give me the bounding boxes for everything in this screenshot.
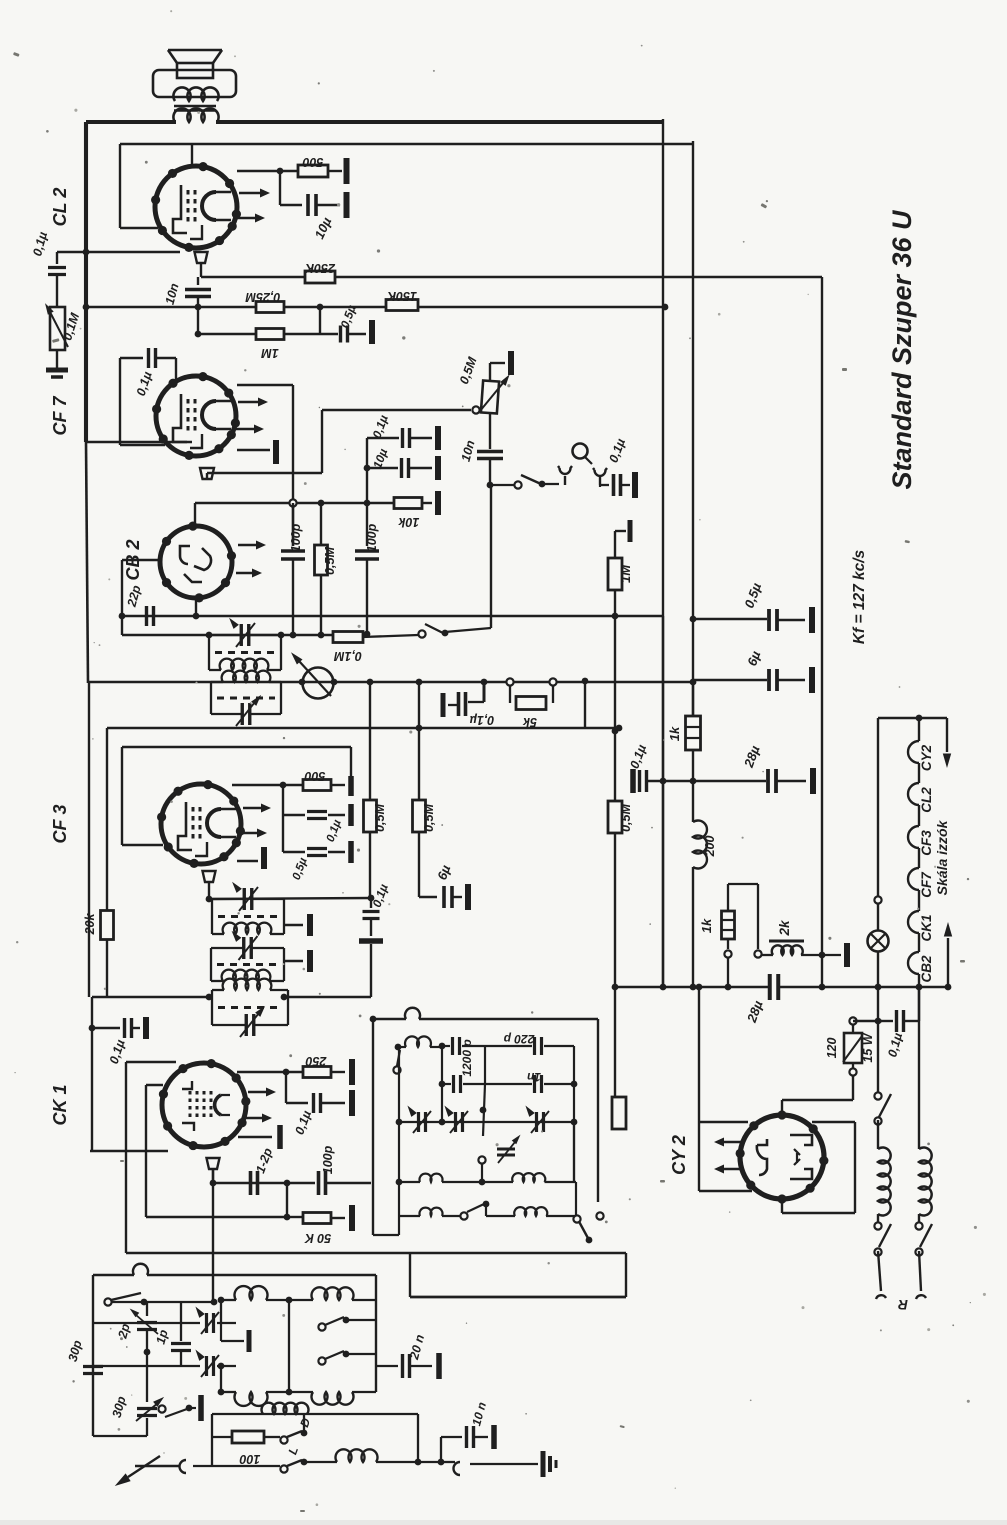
svg-text:1p: 1p [153, 1328, 170, 1346]
svg-text:0,1µ: 0,1µ [325, 818, 344, 844]
svg-text:120: 120 [825, 1038, 839, 1059]
svg-text:2p: 2p [115, 1322, 133, 1341]
svg-text:10 n: 10 n [469, 1401, 489, 1428]
svg-text:50 K: 50 K [304, 1231, 331, 1245]
svg-text:1k: 1k [667, 726, 682, 741]
svg-text:1200 p: 1200 p [460, 1039, 474, 1076]
svg-text:28µ: 28µ [741, 743, 763, 770]
svg-text:100: 100 [240, 1452, 261, 1466]
svg-text:0,5M: 0,5M [323, 547, 337, 575]
svg-text:200: 200 [703, 836, 717, 858]
svg-text:0,1µ: 0,1µ [885, 1031, 905, 1058]
svg-text:R: R [898, 1297, 908, 1312]
svg-text:CK1: CK1 [919, 914, 934, 941]
svg-text:0,1µ: 0,1µ [627, 743, 649, 771]
svg-text:30p: 30p [66, 1338, 85, 1363]
svg-text:0,1µ: 0,1µ [30, 230, 50, 257]
svg-text:20k: 20k [83, 913, 97, 936]
svg-text:0,25M: 0,25M [245, 290, 280, 304]
svg-text:1-2p: 1-2p [253, 1146, 275, 1175]
svg-text:1M: 1M [618, 564, 633, 583]
svg-text:10n: 10n [459, 438, 478, 463]
svg-text:0,1µ: 0,1µ [107, 1038, 128, 1066]
svg-text:CY2: CY2 [919, 744, 934, 771]
svg-text:0,5M: 0,5M [619, 804, 633, 832]
svg-text:1M: 1M [261, 346, 279, 360]
svg-text:100p: 100p [365, 523, 379, 552]
svg-text:CL 2: CL 2 [50, 188, 70, 227]
svg-text:10µ: 10µ [311, 215, 334, 242]
svg-text:6µ: 6µ [744, 649, 763, 668]
svg-text:CF 3: CF 3 [50, 804, 70, 843]
svg-text:0,1M: 0,1M [60, 311, 82, 342]
svg-text:CY 2: CY 2 [669, 1135, 689, 1175]
svg-text:20 n: 20 n [407, 1333, 427, 1362]
svg-text:250K: 250K [304, 261, 336, 275]
svg-text:CF3: CF3 [919, 830, 934, 856]
svg-text:2k: 2k [777, 919, 792, 937]
svg-text:150K: 150K [386, 289, 417, 303]
svg-text:0,1M: 0,1M [334, 649, 362, 663]
svg-text:0,5M: 0,5M [422, 804, 436, 832]
svg-text:10n: 10n [163, 281, 182, 306]
svg-text:0,1µ: 0,1µ [292, 1109, 314, 1137]
svg-text:0,1µ: 0,1µ [370, 413, 391, 440]
svg-text:100p: 100p [289, 523, 303, 552]
svg-text:0,5µ: 0,5µ [291, 856, 310, 882]
svg-text:CF7: CF7 [919, 871, 934, 898]
svg-text:15 W: 15 W [861, 1032, 875, 1062]
svg-text:100p: 100p [321, 1145, 335, 1174]
svg-text:Standard Szuper 36 U: Standard Szuper 36 U [887, 209, 917, 490]
svg-text:6µ: 6µ [434, 863, 453, 882]
svg-text:Skála izzók: Skála izzók [934, 819, 950, 895]
svg-text:CB2: CB2 [919, 955, 934, 982]
svg-text:1k: 1k [699, 918, 714, 933]
svg-text:1n: 1n [527, 1070, 541, 1084]
svg-text:500: 500 [305, 769, 326, 783]
svg-text:D: D [297, 1416, 313, 1429]
svg-text:10k: 10k [398, 515, 420, 529]
svg-text:CL2: CL2 [919, 787, 934, 813]
svg-text:220 p: 220 p [504, 1032, 536, 1046]
svg-text:0,5M: 0,5M [457, 355, 480, 386]
svg-text:0,5µ: 0,5µ [741, 580, 764, 610]
svg-text:250: 250 [306, 1054, 328, 1068]
svg-text:28µ: 28µ [744, 998, 766, 1025]
svg-text:CF 7: CF 7 [50, 396, 70, 436]
svg-text:CK 1: CK 1 [50, 1084, 70, 1125]
svg-text:0,1µ: 0,1µ [606, 437, 628, 465]
svg-text:0,1µ: 0,1µ [470, 713, 495, 727]
svg-text:500: 500 [303, 155, 324, 169]
svg-text:22p: 22p [124, 583, 143, 609]
svg-text:30p: 30p [110, 1394, 129, 1419]
svg-text:L: L [285, 1445, 301, 1457]
svg-text:0,1µ: 0,1µ [134, 370, 155, 398]
svg-text:Kf = 127 kc/s: Kf = 127 kc/s [851, 549, 868, 644]
svg-text:0,5M: 0,5M [373, 804, 387, 832]
